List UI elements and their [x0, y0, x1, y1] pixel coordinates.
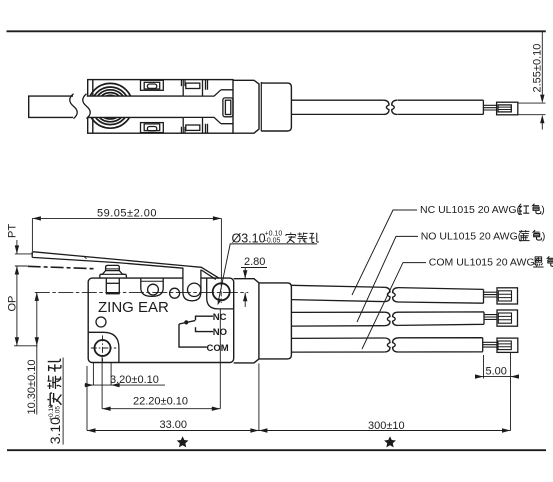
- actuator slot (top view right): [223, 98, 233, 117]
- dim PT: [15, 240, 33, 346]
- svg-text:): ): [541, 204, 545, 216]
- mounting hole boss (top right): [207, 278, 234, 309]
- dim OP: [15, 337, 19, 346]
- lever bend joint mark: [84, 256, 87, 259]
- bottom mounting ear with slot: [141, 123, 164, 133]
- dim 33.00: [87, 364, 511, 431]
- left seam lines: [92, 80, 94, 134]
- svg-text:5.00: 5.00: [486, 366, 507, 378]
- lever rod (top view, white filled over circles): [29, 96, 183, 117]
- stripped conductor strands (top): [483, 105, 497, 110]
- terminal rivet tab with circle: [141, 278, 163, 296]
- wire2 strands and terminal: [484, 310, 518, 326]
- svg-text:PT: PT: [7, 224, 19, 238]
- tinned terminal (top view): [497, 102, 518, 115]
- cable (top view): [291, 100, 483, 114]
- switch blade: [179, 321, 195, 324]
- svg-text:59.05±2.00: 59.05±2.00: [97, 208, 157, 220]
- hole2 crosshair: [220, 281, 222, 303]
- dim 300±10: [259, 428, 268, 432]
- lever hinge strap with rivet: [183, 268, 201, 301]
- NO lead: [196, 327, 214, 331]
- NC wire (top): [291, 285, 483, 303]
- centerline through top features: [35, 291, 249, 293]
- rod break squiggle: [70, 94, 91, 119]
- bushing section (top view): [233, 80, 259, 133]
- bottom border line: [7, 449, 546, 451]
- svg-text:33.00: 33.00: [160, 419, 188, 431]
- dim 59.05 line and extensions: [32, 218, 221, 280]
- svg-text:2.80: 2.80: [244, 256, 265, 268]
- NC wire label: [420, 204, 545, 216]
- svg-text:+0.10: +0.10: [265, 231, 283, 238]
- svg-text:10.30±0.10: 10.30±0.10: [26, 360, 38, 415]
- plunger dome/flange: [100, 271, 127, 279]
- mounting hole top right: [213, 283, 230, 300]
- NO wire (middle): [291, 312, 484, 326]
- switch body: [88, 278, 234, 362]
- svg-text:Ø3.10: Ø3.10: [232, 232, 266, 246]
- NO wire leader: [357, 236, 418, 322]
- svg-text:22.20±0.10: 22.20±0.10: [133, 396, 188, 408]
- small pivot circle: [170, 288, 180, 298]
- svg-text:NC UL1015 20 AWG(: NC UL1015 20 AWG(: [420, 204, 520, 216]
- dim 2.80: [241, 268, 267, 308]
- wire3 strands and terminal: [483, 338, 518, 352]
- roller/spring concentric circles: [88, 83, 133, 128]
- COM wire (bottom): [291, 338, 482, 352]
- hole1 crosshair: [91, 335, 116, 361]
- NO wire label: [421, 230, 546, 242]
- NC wire leader: [352, 210, 417, 295]
- hinge lever (solid, free position): [32, 252, 183, 269]
- plunger block (top view cross): [183, 80, 233, 134]
- star mark right: [384, 436, 396, 447]
- dim 10.30±0.10: [36, 292, 38, 414]
- svg-text:): ): [542, 230, 546, 242]
- svg-text:2.55±0.10: 2.55±0.10: [532, 44, 544, 93]
- cable sleeve (lower view): [259, 283, 292, 359]
- lever operating position (dash-dot line): [28, 266, 94, 268]
- svg-text:COM: COM: [207, 343, 229, 354]
- lever end over hinge and bend-down to hole boss: [183, 266, 219, 280]
- svg-text:-0.05: -0.05: [55, 406, 62, 421]
- svg-text:NC: NC: [213, 312, 227, 323]
- wire1 strands and terminal: [484, 288, 518, 304]
- bushing section 1 (lower view): [234, 279, 259, 363]
- switch body (top view): [88, 80, 233, 134]
- COM wire leader: [362, 263, 426, 349]
- small circle under ZING EAR: [96, 317, 106, 327]
- svg-text:3.20±0.10: 3.20±0.10: [110, 374, 159, 386]
- top border line: [7, 30, 546, 32]
- star mark left: [177, 436, 189, 447]
- bottom-left mounting hole: [95, 340, 111, 356]
- COM lead: [179, 324, 207, 347]
- svg-text:NO UL1015 20 AWG(: NO UL1015 20 AWG(: [421, 230, 522, 242]
- cable break squiggle: [384, 100, 398, 114]
- svg-text:300±10: 300±10: [368, 420, 405, 432]
- internal circuit symbol: [179, 316, 213, 347]
- dim 22.20±0.10: [102, 310, 220, 409]
- cable sleeve (top view): [261, 83, 291, 131]
- dim 5.00: [478, 355, 516, 379]
- blade contact dot: [184, 320, 188, 324]
- top mounting ear with slot: [141, 80, 164, 90]
- dim 3.10 mounting hole (left rotated label): [47, 404, 63, 444]
- bottom-left hole boss outline: [88, 332, 119, 362]
- dim 3.20±0.10: [85, 363, 166, 385]
- svg-text:COM UL1015 20 AWG(: COM UL1015 20 AWG(: [429, 257, 539, 269]
- svg-text:ZING EAR: ZING EAR: [98, 299, 169, 316]
- svg-text:OP: OP: [7, 296, 19, 312]
- plunger stem guide: [106, 278, 120, 294]
- small edge notches: [181, 80, 185, 134]
- plunger cap: [106, 265, 120, 270]
- NC lead: [196, 316, 214, 320]
- dimension 2.55±0.10 (cable end diameter): [518, 31, 546, 129]
- COM wire label: [429, 256, 553, 268]
